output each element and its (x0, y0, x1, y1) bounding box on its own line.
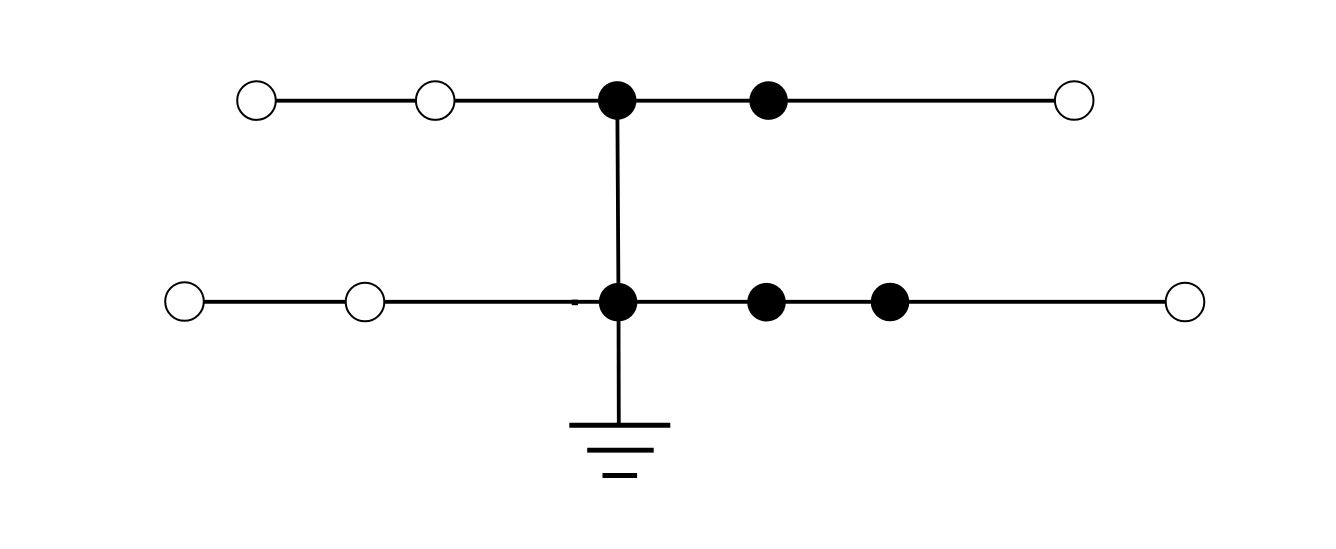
node: open terminal, bottom row second (346, 283, 385, 322)
node: open terminal, bottom row right (1166, 283, 1205, 322)
junction: filled node, top row first (598, 81, 637, 120)
ground (569, 425, 670, 475)
junction: filled node, top row second (749, 81, 788, 120)
wire: vertical link between top and bottom nets (617, 101, 618, 302)
wire: top horizontal net (257, 99, 1075, 103)
junction: filled node, bottom row second (747, 283, 786, 322)
node: open terminal, top row second (416, 81, 455, 120)
junction: filled node, bottom row first (599, 283, 638, 322)
wire: bottom horizontal net (185, 300, 1186, 304)
node: open terminal, bottom row left (165, 282, 204, 321)
wire: ground lead (617, 302, 621, 427)
junction: filled node, bottom row third (871, 283, 910, 322)
node: open terminal, top row right (1055, 81, 1094, 120)
node: open terminal, top row left (237, 81, 276, 120)
wire: joint blip on bottom net (572, 300, 578, 306)
